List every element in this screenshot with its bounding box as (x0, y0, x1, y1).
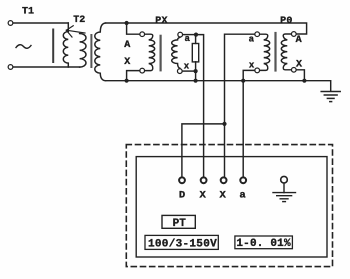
T2 core (90, 35, 92, 67)
AC sine symbol (16, 45, 31, 49)
svg-text:X: X (124, 57, 130, 68)
box terminal D circle (179, 177, 185, 183)
ground symbol right (321, 92, 340, 102)
svg-text:x: x (184, 62, 190, 72)
svg-text:X: X (200, 190, 207, 202)
bottom bus wire (106, 81, 331, 92)
junction D branch (222, 122, 226, 126)
source terminal top (8, 21, 13, 26)
junction top bus / PX primary (125, 21, 129, 25)
wire source top to T2 variac (13, 22, 68, 24)
wire node a down to box terminal X (196, 35, 204, 177)
junction a/resistor (194, 33, 198, 37)
box terminal a circle (240, 177, 246, 183)
svg-text:a: a (249, 34, 255, 44)
box terminal X circle (201, 177, 207, 183)
svg-text:A: A (124, 40, 130, 51)
T1 core bar (52, 30, 54, 63)
PX terminal x circle (177, 69, 182, 74)
P0 terminal x circle (255, 68, 260, 73)
top bus wire (106, 23, 307, 34)
ratio label box (145, 235, 218, 249)
P0 core (274, 33, 276, 71)
box terminal X2 circle (221, 177, 227, 183)
P0 terminal X circle (291, 67, 296, 72)
box ground terminal circle (281, 176, 288, 183)
wire P0 X to bus (296, 70, 304, 81)
box ground symbol (273, 183, 296, 201)
wire PX a to resistor node (183, 34, 196, 36)
svg-text:T1: T1 (22, 6, 34, 17)
svg-text:D: D (179, 190, 185, 202)
svg-text:PT: PT (173, 218, 187, 230)
dashed enclosure box (126, 145, 332, 267)
P0 primary winding (281, 34, 291, 70)
wire P0 x to bus (243, 70, 254, 80)
junction bottom bus / PX primary (125, 79, 129, 83)
PT label box (162, 215, 195, 228)
wire P0 a to box column (225, 34, 255, 176)
P0 terminal A circle (291, 32, 296, 37)
svg-text:X: X (296, 60, 302, 71)
solid instrument box (136, 157, 327, 257)
svg-text:a: a (239, 190, 246, 202)
wire source bottom to T2 windings (13, 66, 79, 68)
svg-text:X: X (220, 190, 227, 202)
PX secondary winding (172, 37, 180, 68)
wire PX x to resistor lead (182, 70, 195, 72)
svg-text:x: x (249, 60, 255, 70)
PX terminal X circle (140, 68, 145, 73)
P0 secondary winding (260, 34, 270, 70)
svg-text:P0: P0 (280, 16, 293, 27)
class label box (235, 236, 293, 249)
svg-text:100/3-150V: 100/3-150V (148, 238, 217, 250)
PX terminal A circle (140, 32, 145, 37)
P0 terminal a circle (255, 32, 260, 37)
junction resistor/bottom bus (194, 79, 198, 83)
T2 primary winding (80, 34, 86, 68)
junction P0 X / bus (302, 79, 306, 83)
transformer T2 variac winding (63, 23, 68, 67)
svg-text:T2: T2 (73, 15, 85, 26)
wire bus down to box terminal a (242, 81, 244, 177)
svg-text:a: a (184, 34, 190, 44)
wire to PX terminal X (127, 71, 140, 81)
junction P0 x / bus / box a (241, 79, 245, 83)
resistor bottom lead (195, 62, 197, 81)
resistor top lead (195, 35, 197, 44)
svg-text:PX: PX (155, 16, 168, 27)
wire D branch (182, 124, 225, 176)
variac wiper arrow (66, 26, 85, 37)
PX primary winding (145, 34, 155, 70)
svg-text:1-0. 01%: 1-0. 01% (236, 238, 291, 250)
wire to PX terminal A (127, 23, 140, 34)
PX core (160, 36, 162, 71)
junction x/resistor bottom (194, 69, 198, 73)
resistor R (192, 44, 198, 62)
source terminal bottom (8, 65, 13, 70)
T2 secondary winding (95, 23, 106, 81)
svg-text:A: A (296, 35, 302, 46)
PX terminal a circle (178, 32, 183, 37)
